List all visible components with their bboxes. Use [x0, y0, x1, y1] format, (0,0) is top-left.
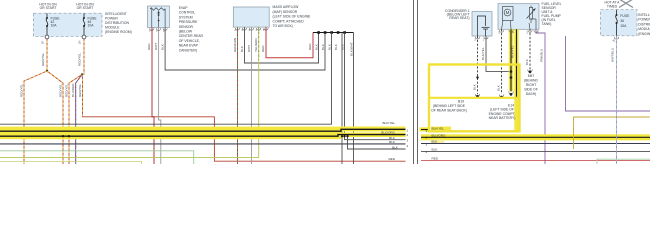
svg-text:NEAR BATTERY): NEAR BATTERY): [489, 116, 516, 120]
svg-text:CANISTER): CANISTER): [179, 48, 197, 52]
svg-text:RED/YEL: RED/YEL: [78, 52, 82, 66]
svg-text:36: 36: [620, 19, 624, 23]
svg-text:BLK: BLK: [334, 43, 338, 50]
svg-text:TO AIR BOX): TO AIR BOX): [273, 24, 293, 28]
svg-text:INTELLIG: INTELLIG: [638, 13, 650, 17]
svg-text:DISTRIB: DISTRIB: [638, 22, 650, 26]
svg-text:BLK: BLK: [496, 84, 500, 91]
svg-text:(LEFT SIDE OF ENGINE: (LEFT SIDE OF ENGINE: [273, 15, 312, 19]
svg-text:BLK/YEL: BLK/YEL: [481, 47, 485, 60]
svg-text:OR START: OR START: [77, 6, 94, 10]
svg-text:SENSOR: SENSOR: [179, 25, 194, 29]
svg-text:BLK/YEL: BLK/YEL: [432, 127, 445, 131]
svg-text:BLK/ORG: BLK/ORG: [381, 131, 395, 135]
svg-text:(BEHIND: (BEHIND: [524, 79, 538, 83]
svg-text:BLK: BLK: [314, 43, 318, 50]
svg-text:BLU/RED: BLU/RED: [71, 83, 75, 97]
svg-text:SYSTEM: SYSTEM: [179, 15, 193, 19]
svg-text:15A: 15A: [620, 24, 627, 28]
svg-text:OR START: OR START: [40, 6, 57, 10]
svg-text:CENTER REAR: CENTER REAR: [179, 34, 204, 38]
svg-text:CONTROL: CONTROL: [179, 11, 196, 15]
svg-text:BLK: BLK: [432, 139, 439, 143]
svg-text:2N: 2N: [78, 41, 82, 44]
svg-text:RED/YEL: RED/YEL: [65, 83, 69, 97]
svg-text:POWER: POWER: [638, 18, 650, 22]
svg-text:POWER: POWER: [105, 17, 118, 21]
svg-text:M57: M57: [528, 74, 535, 78]
svg-text:RED/GRN: RED/GRN: [233, 38, 237, 52]
svg-text:INTELLIGENT: INTELLIGENT: [105, 12, 127, 16]
svg-text:10A: 10A: [51, 24, 58, 28]
svg-text:(ENGINE ROOM): (ENGINE ROOM): [105, 30, 132, 34]
svg-text:BLK: BLK: [473, 83, 477, 90]
svg-text:BLK/WHT: BLK/WHT: [350, 42, 354, 56]
svg-text:RED/YEL: RED/YEL: [19, 83, 23, 97]
svg-text:BLK/YEL: BLK/YEL: [511, 45, 515, 58]
svg-text:FUSE: FUSE: [620, 14, 630, 18]
svg-text:(BELOW: (BELOW: [179, 30, 193, 34]
svg-text:BLK: BLK: [240, 45, 244, 52]
svg-text:REAR SEAT): REAR SEAT): [449, 16, 469, 20]
svg-text:BLK: BLK: [321, 43, 325, 50]
svg-text:WHT: WHT: [154, 43, 158, 50]
svg-text:RED: RED: [261, 45, 265, 52]
svg-text:MODULE: MODULE: [638, 27, 650, 31]
svg-text:M: M: [506, 10, 510, 15]
svg-text:NEAR EVAP: NEAR EVAP: [179, 44, 199, 48]
svg-text:SIDE OF: SIDE OF: [524, 88, 538, 92]
svg-text:OF VEHICLE,: OF VEHICLE,: [179, 39, 200, 43]
svg-text:COMPT; ATTACHED: COMPT; ATTACHED: [273, 19, 305, 23]
svg-text:DISTRIBUTION: DISTRIBUTION: [105, 21, 129, 25]
svg-text:RED: RED: [147, 43, 151, 50]
svg-text:WHT/BLU: WHT/BLU: [611, 48, 615, 62]
svg-text:BLU/ORG: BLU/ORG: [432, 133, 447, 137]
svg-text:WHT: WHT: [247, 45, 251, 52]
svg-text:BLK: BLK: [525, 58, 529, 65]
svg-text:RED: RED: [432, 156, 439, 160]
svg-text:10A: 10A: [88, 24, 95, 28]
svg-text:BLK: BLK: [392, 146, 399, 150]
svg-text:RED/YEL: RED/YEL: [41, 52, 45, 66]
svg-text:TIMES: TIMES: [607, 4, 618, 8]
svg-text:RED: RED: [308, 43, 312, 50]
svg-text:RED: RED: [388, 157, 395, 161]
svg-text:TANK): TANK): [542, 22, 552, 26]
svg-text:BLK/YEL: BLK/YEL: [382, 121, 395, 125]
svg-text:RED/YEL: RED/YEL: [78, 83, 82, 97]
svg-text:(ENGINE: (ENGINE: [638, 32, 650, 36]
svg-text:BLK: BLK: [327, 43, 331, 50]
svg-text:BLK: BLK: [389, 140, 396, 144]
svg-text:BLK: BLK: [160, 43, 164, 50]
svg-text:1P: 1P: [41, 41, 45, 44]
svg-text:RIGHT: RIGHT: [526, 83, 537, 87]
svg-text:BLK: BLK: [432, 147, 439, 151]
svg-text:YEL/GRN: YEL/GRN: [254, 38, 258, 52]
svg-text:PNK/BLU: PNK/BLU: [540, 49, 544, 62]
svg-text:(BEHIND LEFT SIDE: (BEHIND LEFT SIDE: [433, 104, 466, 108]
svg-text:DASH): DASH): [526, 92, 537, 96]
svg-text:RED/YEL: RED/YEL: [59, 83, 63, 97]
svg-text:PRESSURE: PRESSURE: [179, 20, 198, 24]
svg-text:B19: B19: [458, 100, 464, 104]
svg-text:EVAP: EVAP: [179, 6, 189, 10]
svg-text:MODULE: MODULE: [105, 26, 120, 30]
svg-text:(MAF) SENSOR: (MAF) SENSOR: [273, 10, 298, 14]
svg-text:OF REAR SEAT BACK): OF REAR SEAT BACK): [431, 109, 467, 113]
svg-text:MASS AIRFLOW: MASS AIRFLOW: [273, 5, 300, 9]
